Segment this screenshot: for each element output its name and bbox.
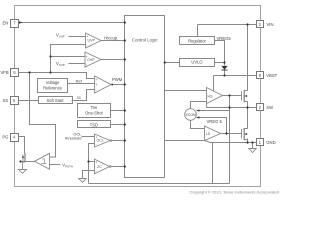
wire OCL threshold stub — [82, 136, 95, 138]
ground under PG MOSFET — [19, 170, 27, 174]
wire Ton one-shot output — [111, 110, 125, 112]
op-amp OCL comparator — [95, 134, 111, 147]
node OVP branch — [49, 55, 51, 57]
wire OVP output — [101, 59, 125, 61]
svg-text:OCL: OCL — [97, 139, 104, 143]
wire LS source to GND — [247, 139, 249, 143]
svg-text:Hiccup: Hiccup — [104, 36, 117, 41]
pin SW box 2 — [257, 104, 264, 111]
svg-text:Ref: Ref — [76, 79, 83, 84]
TSD box — [78, 121, 111, 128]
svg-text:-: - — [96, 142, 97, 146]
XCON arrowhead A — [196, 109, 199, 111]
wire VIN — [198, 24, 257, 26]
IC boundary — [15, 6, 261, 187]
wire VIN branch to HS drain — [247, 25, 249, 91]
wire regulator top to VIN line — [197, 25, 199, 37]
svg-text:One-Shot: One-Shot — [85, 111, 103, 116]
pin PG box 4 — [11, 134, 19, 142]
wire ZC lower input to ground — [83, 171, 95, 179]
wire GND — [211, 142, 257, 144]
wire EN to control logic — [19, 22, 125, 24]
pin VFB box 6 — [11, 69, 19, 77]
svg-text:EN: EN — [3, 20, 9, 25]
PG MOSFET body arrow — [22, 156, 25, 158]
svg-text:PWM: PWM — [112, 77, 123, 82]
wire LS drain to SW — [247, 108, 249, 129]
svg-text:+: + — [86, 55, 88, 59]
node UVLO left — [164, 61, 166, 63]
comparator +/- marks — [86, 35, 98, 173]
pin GND box 1 — [257, 139, 264, 146]
svg-text:UVP: UVP — [88, 39, 96, 43]
svg-text:SS: SS — [3, 98, 9, 103]
node VFB branch 1 — [28, 71, 30, 73]
svg-text:GND: GND — [266, 140, 275, 145]
wire diode to VBST — [224, 71, 226, 76]
svg-text:SW: SW — [266, 105, 273, 110]
svg-text:Regulator: Regulator — [188, 39, 206, 44]
svg-text:Soft Start: Soft Start — [46, 98, 64, 103]
LS MOSFET body arrow — [245, 133, 247, 135]
wire GND kink from LS vertex — [205, 141, 211, 143]
op-amp PG comparator (points left) — [35, 153, 50, 169]
control logic box — [125, 16, 165, 178]
ton one-shot box — [78, 104, 111, 118]
svg-text:Voltage: Voltage — [46, 80, 60, 85]
node PWM apex — [111, 84, 113, 86]
svg-text:SS: SS — [77, 96, 81, 100]
node SW sense — [228, 106, 230, 108]
wire OCL output — [112, 140, 125, 142]
ZC output bubble — [110, 166, 112, 168]
wire OVP plus branch — [51, 56, 85, 58]
node VFB branch 2 — [49, 71, 51, 73]
wire HS driver supply stub — [213, 76, 215, 92]
node LS source GND — [246, 141, 248, 143]
wire XCON sense A from HS gate node — [197, 110, 230, 112]
wire control logic to LS lower input — [165, 140, 205, 142]
svg-text:+: + — [86, 35, 88, 39]
svg-text:VIN: VIN — [267, 22, 274, 27]
wire V_OVP stub — [69, 63, 85, 65]
svg-text:VFB: VFB — [1, 70, 9, 75]
node HS gate — [228, 94, 230, 96]
svg-text:+: + — [95, 160, 97, 164]
svg-text:PG: PG — [2, 135, 8, 140]
svg-text:UVLO: UVLO — [191, 60, 202, 65]
wire PG pin to FET drain — [19, 137, 25, 154]
wire bottom sense — [89, 183, 230, 185]
node diode VBST — [223, 74, 225, 76]
svg-text:VREG 5: VREG 5 — [207, 119, 223, 124]
node ZC sense — [87, 160, 89, 162]
wire XCON bottom to LS upper input — [191, 121, 205, 129]
node OVP at control logic — [124, 58, 126, 60]
wire XCON top to HS lower input — [191, 102, 207, 109]
wire ground symbol stub — [252, 143, 254, 149]
svg-text:OVP: OVP — [87, 58, 95, 62]
buffer LS driver — [205, 126, 221, 141]
node ZC at control logic — [124, 165, 126, 167]
svg-text:VPGTH: VPGTH — [62, 162, 73, 168]
transistor HS MOSFET — [242, 90, 248, 102]
XCON circle — [185, 109, 197, 121]
soft start box — [39, 97, 73, 104]
diode D1 bootstrap — [221, 66, 227, 70]
wire UVLO left to control logic — [165, 62, 180, 64]
wire TSD output — [111, 124, 125, 126]
node hiccup at control logic — [124, 39, 126, 41]
wire VFB branch down to PG comparator — [30, 73, 56, 158]
svg-text:-: - — [86, 63, 87, 67]
svg-text:threshold: threshold — [65, 136, 81, 141]
pin EN box 7 — [11, 20, 19, 28]
transistor LS MOSFET — [242, 128, 248, 140]
node PG gate — [19, 160, 21, 162]
regulator box — [180, 37, 215, 45]
wire UVLO right — [215, 62, 225, 64]
svg-text:HS: HS — [208, 94, 214, 98]
wire ZC output — [112, 166, 125, 168]
comparator labels — [87, 39, 213, 169]
node OCL at control logic — [124, 139, 126, 141]
wire PG V label stub — [50, 164, 61, 166]
ground at GND pin — [249, 149, 256, 153]
wire VFB to PWM top input — [19, 73, 95, 79]
op-amp ZC comparator — [95, 159, 110, 174]
node HS source SW — [246, 106, 248, 108]
OCL output bubble — [110, 140, 112, 142]
node TSD at control logic — [124, 123, 126, 125]
XCON arrowhead B — [196, 116, 199, 118]
svg-text:LS: LS — [206, 132, 211, 136]
node PWM at control logic — [124, 83, 126, 85]
op-amp OVP comparator — [85, 52, 101, 67]
pin VIN box 3 — [257, 21, 264, 28]
wire SW line — [207, 107, 257, 109]
wire control logic to HS upper input — [165, 90, 207, 92]
wire regulator output VREG5 — [215, 41, 225, 66]
wire Ref to PWM middle input — [68, 83, 95, 85]
node VREG5 UVLO — [223, 61, 225, 63]
wire VBST — [214, 75, 257, 77]
node LS gate — [225, 132, 227, 134]
HS MOSFET body arrow — [245, 95, 247, 97]
PG comparator hysteresis glyph — [41, 159, 47, 164]
wire HS source to SW — [247, 102, 249, 108]
op-amp PWM comparator — [95, 76, 111, 93]
svg-text:+: + — [96, 135, 98, 139]
UVLO box — [180, 59, 215, 67]
svg-text:Copyright © 2010, Texas Instru: Copyright © 2010, Texas Instruments Inco… — [190, 189, 279, 194]
wire LS output to gate — [221, 133, 242, 135]
svg-text:-: - — [95, 170, 96, 174]
wire HS gate node down to SW and bottom sense — [229, 96, 231, 184]
wire HS driver bottom stub — [206, 104, 208, 108]
svg-text:TSD: TSD — [90, 122, 98, 127]
node Ton at control logic — [124, 109, 126, 111]
node EN at control logic — [124, 21, 126, 23]
svg-text:-: - — [86, 43, 87, 47]
svg-text:VBST: VBST — [266, 73, 277, 78]
node ground stub — [251, 141, 253, 143]
pin VBST box 8 — [257, 72, 264, 79]
svg-text:XCON: XCON — [185, 113, 196, 117]
svg-text:Ton: Ton — [91, 105, 98, 110]
svg-text:ZC: ZC — [97, 165, 102, 169]
op-amp UVP comparator — [86, 33, 102, 48]
wire XCON sense B from LS gate node — [197, 118, 227, 134]
voltage reference box — [38, 79, 68, 93]
wire PWM output — [111, 84, 125, 86]
svg-text:+: + — [95, 83, 97, 87]
wire soft start input — [19, 100, 39, 102]
svg-text:-: - — [95, 89, 96, 93]
wire VFB branch to UVP/OVP — [51, 45, 86, 73]
wire V_UVP stub — [69, 36, 86, 38]
svg-text:VUVP: VUVP — [56, 33, 65, 39]
wire sense vertical to OCL and ZC inputs — [89, 144, 95, 184]
EN input arrowhead — [19, 21, 22, 24]
ground at ZC comparator — [79, 179, 86, 183]
buffer HS driver — [207, 88, 223, 104]
svg-text:Reference: Reference — [43, 85, 63, 90]
svg-text:VREG5: VREG5 — [217, 36, 232, 41]
wire PG comparator output to FET gate — [21, 161, 35, 163]
wire HS output to gate — [223, 95, 242, 97]
wire UVP output (Hiccup) — [101, 40, 125, 42]
svg-text:Control Logic: Control Logic — [132, 37, 159, 42]
pin SS box 5 — [11, 97, 19, 105]
node VIN branch — [246, 23, 248, 25]
wire GND drop to bottom — [212, 143, 214, 184]
wire ZC upper input — [89, 161, 95, 163]
svg-text:+: + — [95, 78, 97, 82]
transistor PG MOSFET — [23, 153, 26, 170]
wire soft start output to PWM bottom input — [72, 90, 95, 101]
svg-text:VOVP: VOVP — [56, 61, 65, 67]
